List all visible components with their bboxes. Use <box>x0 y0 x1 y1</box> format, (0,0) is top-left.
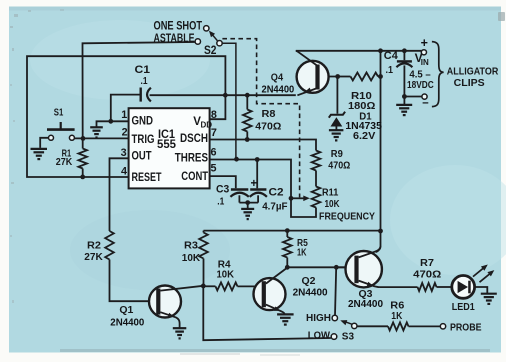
svg-text:1K: 1K <box>297 247 307 259</box>
svg-text:18VDC: 18VDC <box>407 79 434 91</box>
svg-text:10K: 10K <box>217 268 235 280</box>
svg-text:RESET: RESET <box>132 172 162 184</box>
svg-text:C4: C4 <box>384 50 399 62</box>
svg-text:Q4: Q4 <box>271 71 283 83</box>
svg-text:2N4400: 2N4400 <box>110 317 144 329</box>
svg-text:27K: 27K <box>84 251 103 263</box>
svg-text:4.7µF: 4.7µF <box>262 200 288 212</box>
svg-text:C1: C1 <box>135 64 151 76</box>
svg-text:27K: 27K <box>56 157 73 168</box>
svg-text:3: 3 <box>121 147 127 159</box>
svg-text:C3: C3 <box>216 183 229 195</box>
svg-text:ASTABLE: ASTABLE <box>154 31 195 45</box>
svg-text:470Ω: 470Ω <box>413 269 441 281</box>
svg-text:R9: R9 <box>331 148 343 160</box>
svg-text:10K: 10K <box>325 198 340 210</box>
svg-text:S1: S1 <box>54 106 64 118</box>
svg-text:+: + <box>251 178 258 190</box>
svg-text:GND: GND <box>132 116 154 128</box>
svg-text:2N4400: 2N4400 <box>293 286 328 298</box>
svg-text:R8: R8 <box>262 108 276 120</box>
svg-text:R3: R3 <box>184 239 198 251</box>
svg-text:2N4400: 2N4400 <box>348 298 383 310</box>
svg-text:10K: 10K <box>182 252 201 264</box>
svg-text:CLIPS: CLIPS <box>454 78 485 89</box>
svg-text:6: 6 <box>211 146 217 158</box>
svg-text:470Ω: 470Ω <box>255 120 281 132</box>
svg-text:PROBE: PROBE <box>450 322 482 334</box>
svg-text:S2: S2 <box>204 45 217 57</box>
svg-text:470Ω: 470Ω <box>328 159 350 171</box>
svg-text:HIGH: HIGH <box>306 312 331 324</box>
svg-text:IN: IN <box>421 58 429 67</box>
svg-text:LED1: LED1 <box>452 301 475 313</box>
svg-text:TRIG: TRIG <box>132 134 155 146</box>
svg-text:.1: .1 <box>386 65 394 76</box>
svg-text:R7: R7 <box>420 257 434 269</box>
svg-text:S3: S3 <box>342 331 354 343</box>
svg-text:1: 1 <box>121 109 127 121</box>
svg-text:7: 7 <box>211 127 217 139</box>
svg-text:THRES: THRES <box>175 152 208 164</box>
svg-text:ALLIGATOR: ALLIGATOR <box>447 66 499 77</box>
svg-text:2N4400: 2N4400 <box>262 83 295 95</box>
svg-text:5: 5 <box>211 163 217 175</box>
svg-text:1K: 1K <box>391 310 402 322</box>
svg-text:FREQUENCY: FREQUENCY <box>319 210 375 222</box>
svg-text:555: 555 <box>157 139 177 151</box>
svg-text:DSCH: DSCH <box>180 133 208 145</box>
svg-text:Q1: Q1 <box>119 304 133 316</box>
svg-text:.1: .1 <box>217 196 224 207</box>
svg-text:Q2: Q2 <box>302 275 316 287</box>
svg-text:–: – <box>422 97 429 109</box>
svg-text:CONT: CONT <box>181 171 208 183</box>
svg-text:8: 8 <box>211 109 217 121</box>
svg-text:6.2V: 6.2V <box>353 130 375 142</box>
svg-text:R2: R2 <box>87 239 101 251</box>
svg-text:4: 4 <box>121 166 127 178</box>
svg-text:2: 2 <box>122 127 128 139</box>
svg-text:.1: .1 <box>141 76 148 87</box>
svg-text:C2: C2 <box>269 187 284 199</box>
svg-text:OUT: OUT <box>132 151 152 163</box>
svg-text:+: + <box>421 36 428 50</box>
svg-text:LOW: LOW <box>308 329 330 341</box>
